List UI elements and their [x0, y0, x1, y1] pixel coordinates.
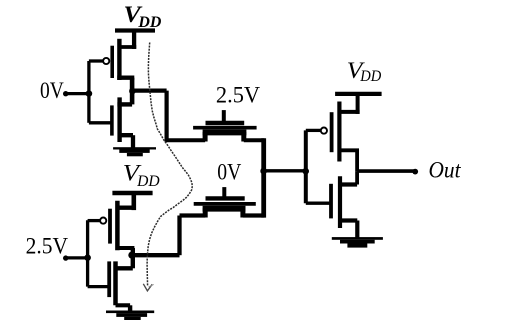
nmos M4 source stub [116, 303, 131, 307]
wire inverter3 output to Out [357, 169, 415, 173]
wire PMOS drain to output node (inv3) [355, 150, 359, 171]
wire inverter1 output right [133, 88, 167, 92]
pmos M5 channel bar [337, 102, 341, 162]
nmos M6 channel bar [338, 176, 342, 228]
wire output node to NMOS drain [130, 91, 135, 104]
nmos M4 channel bar [113, 261, 118, 305]
wire gate rail to bubble [89, 59, 103, 62]
nmos M2 drain stub [117, 102, 132, 106]
wire gate rail to bubble (inv2) [88, 219, 101, 222]
node input inverter1 junction dot [86, 90, 93, 97]
channel thin bar (top pass) [193, 126, 257, 130]
pmos M1 channel bar [117, 39, 121, 80]
gate stub (top pass) [222, 110, 226, 122]
label VDD (inverter 3) [347, 58, 382, 85]
pmos M5 drain stub [340, 148, 359, 152]
pmos M5 gate bubble [321, 128, 327, 134]
wire NMOS source to ground (inv3) [355, 221, 359, 238]
pmos M1 gate bubble [103, 58, 109, 64]
svg-text:Out: Out [429, 158, 462, 183]
wire PMOS drain to output node (inv2) [131, 248, 135, 255]
VDD rail (inverter 2) [112, 191, 152, 195]
pmos M3 drain stub [116, 246, 135, 250]
wire pass output to inverter3 input [264, 169, 305, 172]
node output inverter1 junction dot [129, 88, 136, 95]
wire output node to NMOS drain (inv2) [131, 255, 135, 268]
wire left of top pass [165, 138, 206, 142]
pmos M3 source stub [119, 205, 137, 209]
pmos M5 gate bar [330, 112, 334, 152]
arrowhead of dashed path [143, 284, 152, 291]
node input inverter2 junction dot [84, 254, 91, 261]
wire input to gate rail [66, 92, 89, 95]
nmos M6 gate bar [329, 184, 333, 219]
wire gate rail to NMOS gate (inv3) [306, 202, 330, 205]
pmos M1 source stub [119, 45, 136, 49]
wire right of bottom pass [243, 213, 265, 217]
wire left of bottom pass [180, 213, 206, 217]
wire VDD to PMOS source [132, 31, 136, 49]
wire gate rail to NMOS gate (inv2) [88, 285, 108, 288]
gate rail (inverter 3) [304, 130, 308, 203]
nmos M2 source stub [120, 133, 133, 137]
gate bar (bottom pass) [206, 196, 245, 200]
wire VDD to PMOS source (inv3) [356, 94, 360, 114]
pmos M1 drain stub [117, 75, 134, 79]
node output inverter2 junction dot [128, 252, 135, 259]
label VDD (inverter 1) [124, 2, 162, 31]
gate rail (inverter 2) [86, 220, 89, 286]
pmos M5 source stub [340, 110, 360, 114]
VDD rail (inverter 3) [335, 92, 382, 96]
pmos M3 channel bar [115, 201, 120, 251]
node inverter3 input junction dot [302, 168, 309, 175]
gate stub (bottom pass) [222, 187, 226, 196]
wire inverter2 output right [133, 253, 180, 257]
wire vertical connector joining pass outputs [261, 138, 266, 217]
wire VDD to PMOS source (inv2) [132, 193, 137, 210]
ground (inverter 2) [106, 311, 154, 321]
wire output node to NMOS drain (inv3) [355, 171, 359, 184]
wire PMOS drain to output node [130, 78, 135, 91]
input terminal dot 2.5V [63, 255, 68, 260]
gate bar (top pass) [206, 121, 245, 125]
input terminal dot 0V [63, 91, 68, 96]
svg-text:DD: DD [359, 68, 381, 85]
output terminal dot Out [412, 169, 418, 175]
svg-text:DD: DD [136, 173, 160, 190]
wire corner down to pass transistor [165, 91, 169, 139]
left stub (bottom pass) [203, 208, 208, 218]
right stub (bottom pass) [240, 208, 245, 218]
wire NMOS source to ground [131, 135, 135, 147]
wire gate rail to bubble (inv3) [306, 129, 321, 132]
wire gate rail to NMOS gate [89, 121, 111, 124]
svg-text:0V: 0V [40, 78, 64, 103]
pmos M3 gate bubble [100, 218, 106, 224]
ground (inverter 3) [332, 237, 383, 248]
svg-text:2.5V: 2.5V [216, 82, 261, 107]
nmos M6 source stub [340, 218, 357, 222]
nmos M4 drain stub [115, 266, 133, 270]
nmos M6 drain stub [340, 182, 357, 186]
channel thin bar (bottom pass) [194, 202, 256, 206]
nmos M2 channel bar [117, 97, 121, 142]
right stub (top pass) [241, 132, 246, 142]
channel thick bar (top pass) [203, 130, 247, 136]
wire input to gate rail (inv2) [66, 256, 88, 259]
dashed path arrow curve [147, 43, 192, 287]
label VDD (inverter 2) [123, 161, 160, 190]
node pass output junction dot [260, 168, 267, 175]
nmos M4 gate bar [107, 261, 111, 297]
svg-text:0V: 0V [217, 160, 241, 185]
svg-text:2.5V: 2.5V [26, 234, 69, 259]
left stub (top pass) [203, 132, 208, 142]
pmos M1 gate bar [110, 46, 114, 78]
VDD rail (inverter 1) [115, 28, 155, 32]
nmos M2 gate bar [110, 105, 114, 135]
channel thick bar (bottom pass) [203, 206, 246, 212]
ground (inverter 1) [113, 147, 156, 156]
wire right of top pass [244, 138, 265, 142]
wire corner up to bottom pass [177, 216, 181, 256]
gate rail (inverter 1) [87, 61, 90, 123]
pmos M3 gate bar [108, 209, 112, 244]
wire NMOS source to ground (inv2) [128, 305, 132, 311]
